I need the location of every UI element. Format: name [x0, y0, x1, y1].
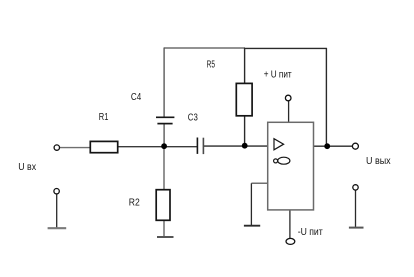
label R2 [129, 198, 140, 209]
svg-text:R5: R5 [207, 60, 215, 71]
junction node A [161, 143, 167, 149]
resistor R1 [90, 141, 117, 152]
wire: R1 to node A to C3 left plate [118, 146, 198, 148]
wire: +U supply terminal to op-amp top pin [288, 101, 290, 123]
wire: top feedback horizontal right segment [244, 47, 327, 49]
wire: op-amp output to output terminal [314, 145, 353, 147]
label +U pit [264, 69, 292, 80]
wire: lower input terminal down to ground [56, 194, 58, 228]
svg-text:R2: R2 [129, 198, 140, 209]
label R1 [99, 112, 109, 123]
junction node B [242, 143, 248, 149]
ground below lower input terminal [48, 227, 67, 229]
wire: R5 bottom vertical to node B [244, 116, 246, 147]
wire: op-amp input 2 ground vertical [250, 183, 252, 225]
terminal output U vyx [352, 143, 358, 149]
terminal lower input [54, 189, 59, 194]
wire: C3 right plate to node B to op-amp input 1 [204, 145, 269, 147]
ground op-amp input 2 [244, 225, 260, 227]
svg-text:-U пит: -U пит [298, 227, 323, 238]
op-amp infinity symbol [274, 157, 290, 164]
terminal input U vx [54, 145, 59, 150]
capacitor C4 top plate [156, 116, 174, 118]
junction output node [324, 143, 330, 149]
svg-text:R1: R1 [99, 112, 109, 123]
wire: input terminal to R1 [60, 147, 91, 149]
label U vyx [366, 156, 391, 167]
wire: C4 branch bottom vertical to node A [163, 124, 165, 147]
capacitor C4 bottom plate [157, 123, 172, 125]
svg-text:U вх: U вх [18, 162, 36, 173]
wire: op-amp bottom pin to -U supply terminal [289, 210, 291, 238]
resistor R5 [236, 83, 252, 115]
ground below lower output terminal [349, 227, 364, 229]
terminal lower output [353, 185, 358, 190]
svg-text:C3: C3 [188, 112, 198, 123]
label R5 [207, 60, 215, 71]
resistor R2 [156, 190, 170, 221]
wire: right vertical from top wire to output node [325, 48, 327, 146]
svg-text:+ U пит: + U пит [264, 69, 292, 80]
capacitor C3 left plate [196, 138, 198, 154]
terminal +U supply [285, 95, 291, 101]
label U vx [18, 162, 36, 173]
wire: top feedback horizontal left segment [164, 47, 245, 49]
op-amp triangle symbol [274, 139, 284, 150]
wire: R5 top vertical [244, 48, 246, 84]
wire: lower output terminal down to ground [355, 190, 357, 227]
label -U pit [298, 227, 323, 238]
wire: C4 branch top vertical [163, 48, 165, 118]
terminal -U supply [286, 238, 295, 244]
label C4 [131, 92, 142, 103]
wire: op-amp input 2 horizontal to ground drop [251, 182, 268, 184]
svg-text:U вых: U вых [366, 156, 391, 167]
label C3 [188, 112, 198, 123]
svg-text:C4: C4 [131, 92, 142, 103]
capacitor C3 right plate [202, 138, 204, 154]
wire: R2 bottom to ground [163, 220, 165, 237]
op-amp U1 body [268, 122, 314, 210]
wire: node A down to R2 top [163, 146, 165, 190]
ground below R2 [157, 236, 174, 238]
